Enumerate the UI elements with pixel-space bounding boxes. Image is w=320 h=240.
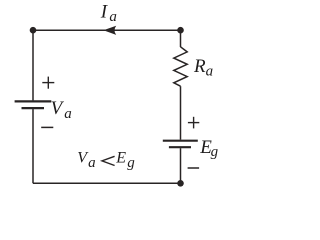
- battery V1 short plate: [22, 107, 45, 109]
- node top-right: [177, 27, 184, 34]
- svg-text:a: a: [109, 9, 117, 25]
- resistor R1 zigzag: [174, 47, 187, 86]
- svg-text:g: g: [211, 144, 219, 160]
- current arrow: [103, 26, 116, 35]
- wire right upper: [180, 30, 182, 47]
- wire right lower: [180, 148, 182, 183]
- plus sign Eg: [188, 117, 199, 129]
- svg-text:a: a: [88, 155, 96, 171]
- svg-text:a: a: [206, 63, 214, 79]
- wire top: [33, 29, 181, 31]
- wire left lower: [32, 109, 34, 183]
- svg-text:R: R: [193, 56, 206, 77]
- node top-left: [30, 27, 37, 34]
- minus sign Eg: [188, 167, 200, 169]
- svg-text:a: a: [64, 106, 72, 122]
- svg-text:g: g: [127, 155, 135, 171]
- wire bottom: [33, 182, 181, 184]
- battery V1 long plate: [15, 100, 52, 102]
- node bottom-right: [177, 180, 184, 187]
- battery E1 long plate: [163, 140, 198, 142]
- wire left upper: [32, 30, 34, 100]
- plus sign Va: [42, 77, 54, 89]
- minus sign Va: [41, 126, 53, 128]
- wire right middle: [180, 86, 182, 139]
- battery E1 short plate: [169, 146, 191, 148]
- svg-text:E: E: [115, 150, 126, 167]
